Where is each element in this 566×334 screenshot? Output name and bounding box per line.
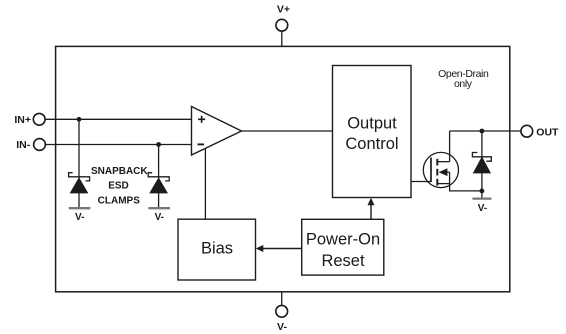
svg-text:V-: V- [478,203,487,214]
svg-text:OUT: OUT [536,126,559,138]
node on OUT line [480,129,485,134]
svg-text:Bias: Bias [201,240,233,258]
wire IN+ [45,118,191,120]
svg-text:Reset: Reset [321,252,365,270]
diode D3 (snapback clamp at OUT) [472,131,491,198]
outer box [56,46,510,291]
pin IN+ [14,113,45,126]
ground V- (output clamp) [473,199,492,214]
ground V- (left clamp) [69,208,91,223]
block Power-On Reset [302,219,384,275]
wire drain up to OUT line [449,131,451,162]
block Bias [178,219,256,280]
op-amp U1 (comparator) [192,107,242,156]
pin IN- [16,139,45,152]
pin V- (bottom) [276,305,288,333]
label Open-Drain only [438,68,489,90]
diode D2 (snapback ESD clamp on IN-) [148,145,169,208]
svg-text:V+: V+ [277,4,290,16]
wire gate lead [411,181,431,183]
node on IN+ [77,117,82,122]
ground V- (right clamp) [148,208,170,223]
svg-text:IN-: IN- [16,139,31,151]
transistor Q1 (NMOS open-drain) [423,152,458,187]
wire POR to Output Control (arrow) [368,198,375,220]
wire POR to Bias (arrow) [256,245,302,252]
wire comparator output [242,130,333,132]
wire V- stub [281,292,283,305]
label SNAPBACK ESD CLAMPS [91,166,148,206]
wire comparator to Bias [204,148,206,219]
wire V+ stub [281,31,283,46]
svg-text:V-: V- [75,212,84,223]
svg-text:V-: V- [155,212,164,223]
block Output Control [333,66,412,198]
wire source down and right [450,184,482,191]
diode D1 (snapback ESD clamp on IN+) [69,119,90,207]
node source/diode junction [480,189,485,194]
svg-text:ESD: ESD [108,181,129,192]
pin OUT [521,125,559,138]
svg-text:IN+: IN+ [14,114,31,126]
node on IN- [156,142,161,147]
svg-text:Output: Output [347,115,397,133]
svg-text:Power-On: Power-On [306,230,380,248]
pin V+ [276,4,290,31]
svg-text:SNAPBACK: SNAPBACK [91,166,148,177]
wire IN- [45,144,191,146]
svg-text:V-: V- [277,321,287,333]
svg-text:only: only [454,78,473,90]
svg-text:CLAMPS: CLAMPS [98,195,141,206]
wire OUT line [450,130,521,132]
svg-text:Control: Control [345,135,398,153]
